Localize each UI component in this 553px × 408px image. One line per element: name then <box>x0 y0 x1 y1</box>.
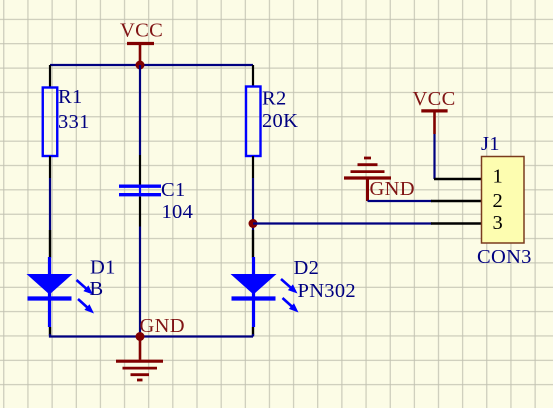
power port GND (bottom): bar 3 <box>131 373 150 376</box>
LED D1 arrow 1 <box>77 280 94 295</box>
LED D2 arrow 2 <box>283 298 299 313</box>
svg-text:J1: J1 <box>481 133 500 155</box>
pin: R1 pin 1 (top stub) <box>49 65 51 88</box>
pin: D2 cathode stub <box>252 327 254 336</box>
wire: D2 to bottom rail <box>252 334 254 337</box>
pin: C1 pin 2 <box>139 197 141 227</box>
LED D2 triangle <box>231 274 277 295</box>
power port GND (right): bar 3 <box>351 170 385 173</box>
capacitor C1 inter-plate stub <box>139 186 141 195</box>
resistor R2 body <box>246 87 261 157</box>
svg-text:VCC: VCC <box>413 88 456 110</box>
svg-text:R1: R1 <box>58 86 83 108</box>
svg-text:D2: D2 <box>294 257 320 279</box>
power port GND (right): bar 2 <box>358 163 378 166</box>
svg-text:3: 3 <box>493 212 504 234</box>
svg-text:VCC: VCC <box>120 20 163 42</box>
LED D2 internal stem <box>252 257 255 327</box>
pin: J1 pin 2 <box>431 200 481 202</box>
power port VCC (top): bar <box>127 42 154 45</box>
LED D1 internal stem <box>48 257 51 327</box>
svg-text:GND: GND <box>370 178 415 200</box>
svg-text:331: 331 <box>58 111 90 133</box>
svg-text:1: 1 <box>493 166 504 188</box>
wire: middle branch from VCC node down to C1 <box>139 65 141 155</box>
pin: D2 anode stub <box>252 230 254 258</box>
wire: R1 to D1 <box>49 178 51 230</box>
pin: C1 pin 1 <box>139 155 141 185</box>
svg-text:D1: D1 <box>90 257 116 279</box>
power port GND (right): stem <box>366 178 369 201</box>
svg-text:GND: GND <box>140 315 185 337</box>
pin: D1 anode stub <box>49 230 51 258</box>
pin: R2 pin 2 (bottom stub) <box>252 156 254 178</box>
LED D1 arrow 2 <box>78 299 94 314</box>
wire: top horizontal net VCC from (50,65) to (253,65) <box>50 64 253 66</box>
svg-text:PN302: PN302 <box>298 280 356 302</box>
power port VCC (right): bar <box>421 109 447 112</box>
capacitor C1 plate 1 <box>119 184 161 187</box>
wire: R2 to D2 through junction <box>252 178 254 230</box>
power port GND (bottom): bar 2 <box>123 367 158 370</box>
power port GND (right): bar 4 (widest, bottom) <box>344 176 391 179</box>
power port VCC (right): stem <box>433 111 436 134</box>
LED D2 arrow 1 <box>281 279 298 294</box>
svg-text:B: B <box>90 278 104 300</box>
pin: J1 pin 1 <box>434 178 481 180</box>
svg-text:R2: R2 <box>262 88 287 110</box>
power port GND (right): bar 1 (smallest, top) <box>364 157 371 160</box>
svg-text:104: 104 <box>162 201 194 223</box>
svg-text:CON3: CON3 <box>477 246 532 268</box>
resistor R1 body <box>43 88 58 157</box>
LED D2 cathode bar <box>232 296 276 300</box>
pin: D1 cathode stub <box>49 327 51 336</box>
pin: J1 pin 3 <box>431 222 481 224</box>
power port GND (bottom): bar 4 <box>137 379 143 382</box>
power port VCC (top): stem <box>139 44 142 64</box>
LED D1 triangle <box>27 274 73 295</box>
junction dot at (253,223.5) <box>249 219 258 228</box>
junction dot GND node <box>136 332 145 341</box>
wire: D1 to bottom rail <box>50 334 140 337</box>
connector J1 body <box>482 157 525 244</box>
pin: R1 pin 2 (bottom stub) <box>49 156 51 178</box>
wire: GND right to J1 pin 2 <box>368 200 433 202</box>
pin: R2 pin 1 (top stub) <box>252 65 254 87</box>
capacitor C1 plate 2 <box>119 193 161 196</box>
wire: C1 to bottom rail <box>139 227 141 337</box>
wire: VCC right down to J1 pin 1 <box>433 134 435 179</box>
power port GND (bottom): bar 1 <box>116 360 163 363</box>
wire: mid net from junction (253,223.5) to J1 pin 3 <box>253 222 432 224</box>
svg-text:C1: C1 <box>161 179 186 201</box>
svg-text:2: 2 <box>493 190 504 212</box>
wire: bottom rail from (140,336.5) to (253,336.5) <box>140 335 253 337</box>
LED D1 cathode bar <box>28 296 72 300</box>
power port GND (bottom): stem <box>139 337 142 360</box>
svg-text:20K: 20K <box>262 110 298 132</box>
junction dot at (140,65) <box>136 61 145 70</box>
